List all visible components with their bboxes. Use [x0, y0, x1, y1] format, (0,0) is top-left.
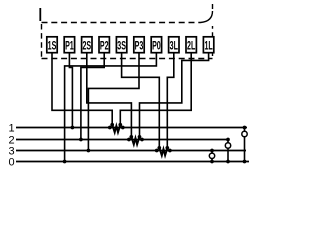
- svg-text:2S: 2S: [82, 40, 91, 53]
- svg-text:1L: 1L: [204, 40, 212, 53]
- svg-text:1S: 1S: [48, 40, 57, 53]
- svg-text:3S: 3S: [117, 40, 126, 53]
- svg-text:P2: P2: [100, 40, 109, 53]
- svg-text:P3: P3: [135, 40, 144, 53]
- svg-text:1: 1: [8, 122, 14, 134]
- svg-text:P1: P1: [65, 40, 74, 53]
- svg-text:P0: P0: [152, 40, 161, 53]
- svg-text:3L: 3L: [170, 40, 178, 53]
- svg-text:2L: 2L: [187, 40, 195, 53]
- svg-text:0: 0: [8, 156, 14, 168]
